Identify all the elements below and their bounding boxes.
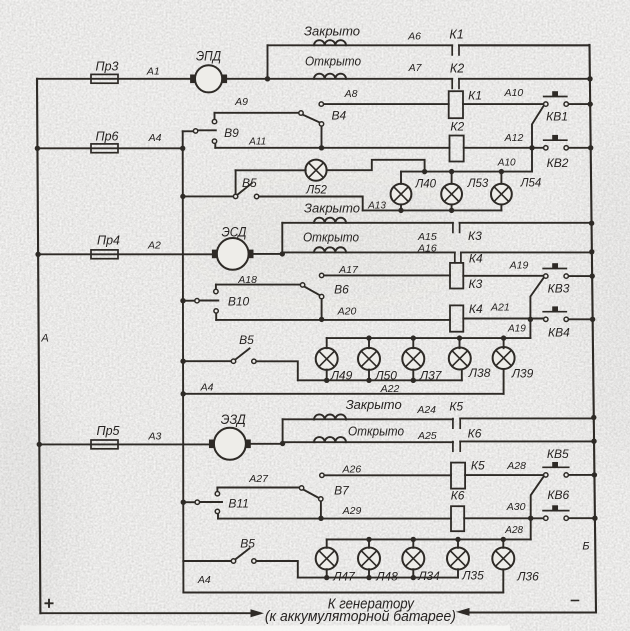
svg-text:Л48: Л48 <box>375 570 398 584</box>
svg-text:В11: В11 <box>228 497 248 511</box>
svg-text:В7: В7 <box>334 484 350 498</box>
svg-text:А25: А25 <box>417 430 437 442</box>
svg-text:КВ3: КВ3 <box>548 282 570 296</box>
svg-text:Открыто: Открыто <box>305 53 361 68</box>
svg-text:К6: К6 <box>451 489 465 503</box>
svg-text:КВ2: КВ2 <box>547 156 569 170</box>
svg-text:КВ6: КВ6 <box>547 488 569 502</box>
svg-text:А10: А10 <box>504 87 524 99</box>
svg-text:В10: В10 <box>228 295 250 309</box>
svg-text:Закрыто: Закрыто <box>346 397 402 412</box>
svg-text:КВ5: КВ5 <box>547 447 569 461</box>
svg-text:ЭЗД: ЭЗД <box>221 412 246 427</box>
svg-text:ЭСД: ЭСД <box>222 225 247 240</box>
svg-text:А11: А11 <box>248 136 266 147</box>
svg-text:А1: А1 <box>146 66 160 78</box>
svg-text:А6: А6 <box>407 30 421 42</box>
svg-text:А30: А30 <box>506 501 526 513</box>
svg-text:А15: А15 <box>417 231 437 243</box>
svg-text:К5: К5 <box>471 459 485 473</box>
svg-text:Закрыто: Закрыто <box>304 201 360 216</box>
svg-text:А27: А27 <box>248 473 269 485</box>
svg-text:К6: К6 <box>468 426 482 440</box>
svg-text:К4: К4 <box>469 302 483 316</box>
svg-text:ЭПД: ЭПД <box>196 49 221 64</box>
svg-text:А: А <box>40 333 48 345</box>
svg-text:В5: В5 <box>239 333 254 347</box>
svg-text:А4: А4 <box>200 382 214 394</box>
svg-text:К5: К5 <box>449 399 463 413</box>
svg-text:Пр6: Пр6 <box>96 130 119 144</box>
svg-text:А19: А19 <box>509 259 529 271</box>
svg-text:Л40: Л40 <box>414 178 436 190</box>
svg-text:А21: А21 <box>490 302 510 314</box>
svg-text:А3: А3 <box>147 431 161 443</box>
svg-text:Л39: Л39 <box>511 367 534 381</box>
svg-text:А19: А19 <box>507 323 526 334</box>
svg-text:А29: А29 <box>342 505 362 517</box>
svg-text:В9: В9 <box>224 126 239 140</box>
svg-text:А7: А7 <box>408 62 423 74</box>
svg-text:В4: В4 <box>331 109 346 123</box>
svg-text:Л50: Л50 <box>374 369 397 383</box>
svg-text:А16: А16 <box>417 242 437 254</box>
svg-text:К3: К3 <box>469 277 483 291</box>
svg-text:Л38: Л38 <box>468 366 491 380</box>
svg-text:Л37: Л37 <box>419 369 443 383</box>
svg-text:К1: К1 <box>449 27 463 41</box>
svg-text:А4: А4 <box>197 574 211 586</box>
svg-text:А18: А18 <box>237 274 257 286</box>
svg-text:А24: А24 <box>416 404 436 416</box>
svg-text:Пр4: Пр4 <box>97 233 120 247</box>
svg-text:Л52: Л52 <box>305 185 327 197</box>
svg-text:А13: А13 <box>367 201 386 212</box>
svg-text:В5: В5 <box>242 176 257 190</box>
svg-text:Открыто: Открыто <box>348 424 404 439</box>
svg-text:Пр5: Пр5 <box>97 424 120 438</box>
svg-text:А20: А20 <box>337 305 357 317</box>
svg-text:А22: А22 <box>380 383 400 395</box>
svg-text:К4: К4 <box>469 251 483 265</box>
svg-text:Л47: Л47 <box>332 570 356 584</box>
svg-text:К1: К1 <box>468 89 482 103</box>
svg-text:Л49: Л49 <box>330 369 353 383</box>
svg-text:А28: А28 <box>504 525 523 536</box>
svg-text:К3: К3 <box>468 229 482 243</box>
svg-text:Закрыто: Закрыто <box>304 24 360 39</box>
svg-text:А12: А12 <box>504 132 524 144</box>
svg-text:А26: А26 <box>342 464 362 476</box>
svg-text:Пр3: Пр3 <box>96 60 119 74</box>
svg-text:Л35: Л35 <box>461 569 484 583</box>
svg-text:А2: А2 <box>147 239 161 251</box>
svg-text:Л53: Л53 <box>467 178 489 190</box>
svg-text:А10: А10 <box>497 157 516 168</box>
svg-text:А8: А8 <box>344 88 358 100</box>
svg-text:А9: А9 <box>234 96 248 108</box>
svg-text:(к аккумуляторной батарее): (к аккумуляторной батарее) <box>265 609 456 625</box>
svg-text:В5: В5 <box>240 537 255 551</box>
svg-text:КВ1: КВ1 <box>546 109 568 123</box>
svg-text:А17: А17 <box>338 264 359 276</box>
svg-text:КВ4: КВ4 <box>548 325 570 339</box>
svg-text:А28: А28 <box>506 460 526 472</box>
svg-text:А4: А4 <box>148 132 162 144</box>
svg-text:Л36: Л36 <box>516 570 539 584</box>
svg-text:К2: К2 <box>450 120 464 134</box>
svg-text:Открыто: Открыто <box>303 230 359 245</box>
svg-text:Л34: Л34 <box>417 569 440 583</box>
svg-text:В6: В6 <box>334 283 349 297</box>
svg-text:Л54: Л54 <box>520 177 542 189</box>
svg-text:К2: К2 <box>450 61 464 75</box>
svg-text:Б: Б <box>582 540 589 552</box>
